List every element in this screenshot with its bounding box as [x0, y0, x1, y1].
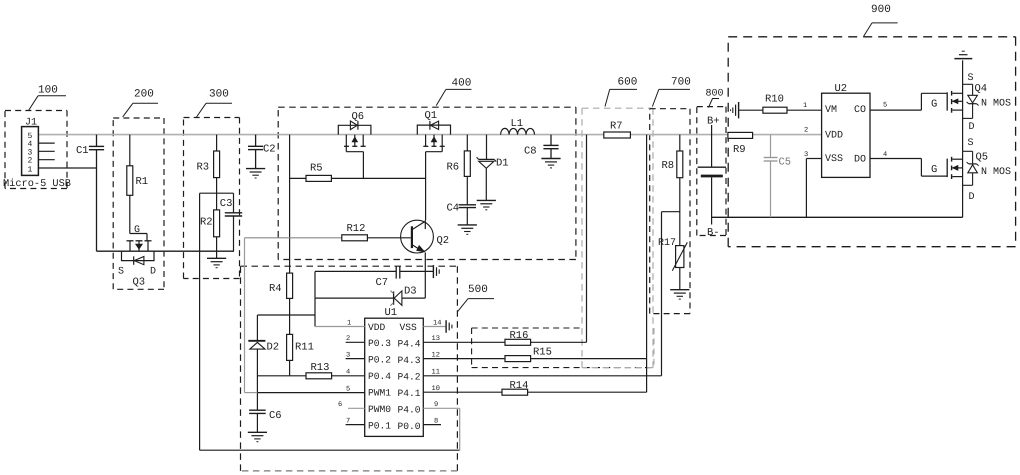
- svg-text:R9: R9: [733, 144, 746, 156]
- svg-text:PWM0: PWM0: [368, 404, 391, 415]
- svg-text:300: 300: [209, 89, 229, 101]
- resistor R6: [447, 135, 471, 205]
- svg-text:VM: VM: [825, 105, 837, 116]
- svg-text:2: 2: [346, 335, 350, 343]
- svg-text:C8: C8: [524, 146, 537, 158]
- svg-text:P4.2: P4.2: [398, 372, 421, 383]
- wire feedback sense bottom: [200, 449, 460, 451]
- transistor Q6 channel: [344, 135, 366, 147]
- svg-text:2: 2: [28, 157, 33, 166]
- resistor R1: [127, 135, 148, 234]
- svg-text:1: 1: [803, 102, 807, 110]
- capacitor C4: [447, 203, 477, 225]
- svg-text:9: 9: [434, 401, 438, 409]
- resistor R2: [200, 193, 220, 258]
- wire divider tap: [200, 192, 234, 194]
- wire B- bus: [712, 216, 963, 218]
- resistor R12: [245, 223, 411, 241]
- svg-text:R8: R8: [662, 160, 675, 172]
- svg-text:P4.4: P4.4: [398, 339, 421, 350]
- capacitor C5: [764, 135, 791, 218]
- svg-text:VSS: VSS: [400, 322, 418, 333]
- wire CO to Q4 gate: [870, 93, 947, 110]
- svg-text:C2: C2: [263, 144, 276, 156]
- resistor R15 on pin12: [423, 347, 646, 362]
- svg-text:3: 3: [346, 351, 350, 359]
- svg-text:R6: R6: [447, 162, 460, 174]
- IC U2: [822, 83, 870, 177]
- resistor R14 on pin10: [423, 380, 646, 395]
- module box 100 (USB input): [5, 111, 67, 189]
- svg-text:DO: DO: [854, 155, 866, 166]
- transistor Q1 gate lead: [426, 146, 443, 220]
- svg-text:4: 4: [883, 151, 887, 159]
- resistor R10: [763, 94, 822, 114]
- svg-text:C3: C3: [220, 198, 233, 210]
- svg-text:S: S: [118, 267, 124, 278]
- wire U1 pin5 PWM1: [257, 385, 364, 393]
- transistor Q1 channel: [423, 135, 444, 147]
- wire U1 pin14 VSS: [423, 320, 446, 328]
- ground under R2: [207, 258, 226, 267]
- capacitor C8: [524, 135, 561, 168]
- transistor Q3 gate: [130, 225, 147, 241]
- svg-text:U1: U1: [385, 307, 398, 319]
- capacitor C1: [76, 135, 104, 252]
- wire J1 pin1 to ground net: [38, 167, 96, 169]
- U1 pin8 stub: [423, 417, 441, 425]
- connector J1: [22, 118, 39, 176]
- wire J1 pin2: [38, 159, 54, 161]
- svg-text:Q5: Q5: [976, 152, 989, 164]
- svg-text:G: G: [134, 225, 140, 236]
- svg-text:400: 400: [452, 78, 472, 90]
- label 800: [706, 89, 724, 108]
- svg-text:P4.1: P4.1: [398, 388, 421, 399]
- svg-text:R13: R13: [311, 362, 330, 374]
- module box 600 (current sample): [582, 108, 653, 367]
- svg-text:4: 4: [346, 369, 350, 377]
- terminal B-: [707, 177, 720, 239]
- svg-text:5: 5: [883, 102, 887, 110]
- svg-text:R5: R5: [310, 163, 323, 175]
- svg-text:3: 3: [804, 151, 808, 159]
- svg-text:Q3: Q3: [133, 277, 146, 289]
- thermistor R17: [658, 238, 687, 290]
- svg-text:R15: R15: [533, 347, 552, 359]
- wire U2 VSS to B-: [806, 159, 821, 218]
- svg-text:VDD: VDD: [368, 322, 386, 333]
- wire temp divider tap: [662, 212, 680, 376]
- wire R16 riser: [586, 135, 588, 343]
- sideways ground pin14: [446, 320, 452, 333]
- wire PWM1 gray elbow: [245, 238, 258, 393]
- svg-text:Micro-5 USB: Micro-5 USB: [3, 178, 71, 190]
- terminal B+: [707, 116, 720, 167]
- wire main 5V rail: [38, 134, 821, 136]
- wire U1 pin9 battery sense: [423, 401, 459, 450]
- svg-text:1: 1: [347, 320, 351, 328]
- label 500: [457, 284, 494, 312]
- svg-text:C6: C6: [269, 410, 282, 422]
- label 600: [605, 77, 637, 107]
- U1 pin6 stub: [338, 401, 365, 409]
- label 900: [864, 4, 898, 37]
- svg-text:R3: R3: [197, 162, 210, 174]
- svg-text:N MOS: N MOS: [981, 167, 1011, 178]
- wire VDD drop: [289, 135, 291, 274]
- transistor Q4 gate bar: [946, 92, 948, 110]
- wire Q2 emitter down: [424, 253, 426, 299]
- Q5 body diode: [963, 151, 979, 185]
- resistor R16 on pin13: [423, 330, 586, 345]
- svg-text:PWM1: PWM1: [368, 388, 391, 399]
- module box 500 (MCU): [241, 266, 458, 471]
- resistor R5: [290, 163, 426, 182]
- wire R15 R14 riser: [646, 135, 648, 393]
- svg-text:C4: C4: [447, 203, 460, 215]
- svg-text:P4.0: P4.0: [398, 405, 421, 416]
- svg-text:200: 200: [134, 89, 154, 101]
- wire DO to Q5 gate: [870, 159, 947, 177]
- svg-text:D3: D3: [404, 286, 417, 298]
- module box 900 (protection): [728, 37, 1015, 247]
- svg-text:500: 500: [468, 284, 488, 296]
- svg-text:R14: R14: [510, 380, 529, 392]
- wire input ground net: [97, 250, 235, 252]
- svg-text:P4.3: P4.3: [398, 355, 421, 366]
- svg-text:11: 11: [432, 369, 440, 377]
- svg-text:7: 7: [346, 417, 350, 425]
- label Micro-5 USB: [3, 178, 71, 190]
- svg-text:S: S: [968, 73, 974, 84]
- label 300: [197, 89, 233, 118]
- svg-text:P0.3: P0.3: [368, 338, 391, 349]
- svg-text:R17: R17: [658, 238, 676, 249]
- svg-text:D: D: [969, 192, 975, 203]
- transistor Q4: [952, 60, 1011, 151]
- U1 pin3 stub: [346, 351, 365, 359]
- svg-text:C1: C1: [76, 145, 89, 157]
- svg-text:Q4: Q4: [975, 83, 988, 95]
- svg-text:8: 8: [434, 417, 438, 425]
- svg-text:R11: R11: [295, 342, 314, 354]
- svg-text:Q1: Q1: [425, 110, 438, 122]
- sideways ground C7: [433, 265, 439, 278]
- svg-text:R12: R12: [347, 223, 366, 235]
- module box 800 (battery): [697, 107, 726, 236]
- module box 400 (buck converter): [278, 107, 576, 259]
- transistor Q3 body diode: [122, 251, 155, 265]
- transistor Q6 body diode: [338, 111, 371, 135]
- label 400: [436, 78, 471, 106]
- svg-text:P0.2: P0.2: [368, 355, 391, 366]
- svg-text:800: 800: [706, 89, 724, 100]
- svg-text:1: 1: [28, 165, 33, 174]
- svg-text:P0.1: P0.1: [368, 420, 391, 431]
- svg-text:6: 6: [338, 401, 342, 409]
- wire U1 pin1 VDD: [315, 320, 365, 328]
- inductor L1: [501, 118, 535, 135]
- svg-text:Q2: Q2: [437, 235, 450, 247]
- Q4 body diode: [963, 84, 979, 118]
- svg-text:G: G: [931, 164, 937, 176]
- svg-text:B-: B-: [707, 227, 720, 239]
- svg-text:P0.0: P0.0: [398, 421, 421, 432]
- resistor R4: [269, 273, 293, 334]
- svg-text:600: 600: [618, 77, 638, 89]
- svg-text:D2: D2: [267, 342, 280, 354]
- svg-text:R2: R2: [200, 217, 213, 229]
- svg-text:VSS: VSS: [825, 154, 843, 165]
- transistor Q2: [401, 220, 450, 253]
- svg-text:700: 700: [671, 77, 691, 89]
- ground under C6: [248, 432, 267, 441]
- svg-text:D: D: [150, 267, 156, 278]
- svg-text:5: 5: [346, 385, 350, 393]
- wire U1 pin11 temp sense: [423, 369, 661, 377]
- resistor R3: [197, 135, 220, 194]
- svg-text:13: 13: [432, 335, 440, 343]
- svg-text:CO: CO: [854, 105, 866, 116]
- battery cell: [698, 167, 726, 176]
- module box 700 (temperature sample): [650, 109, 690, 314]
- transistor Q3 channel: [127, 241, 152, 251]
- svg-text:14: 14: [433, 320, 441, 328]
- svg-text:R10: R10: [765, 94, 784, 106]
- U1 pin7 stub: [346, 417, 365, 425]
- charger port ground: [731, 102, 763, 118]
- ground under R17: [670, 290, 689, 299]
- transistor Q1 body diode: [417, 110, 450, 135]
- resistor R8: [662, 135, 683, 246]
- diode D1 zener: [477, 135, 509, 201]
- wire J1 pin4: [38, 142, 54, 144]
- label 700: [652, 77, 690, 107]
- svg-text:P0.4: P0.4: [368, 371, 391, 382]
- svg-text:900: 900: [871, 4, 891, 16]
- label 100: [29, 85, 67, 111]
- capacitor C2: [246, 135, 276, 178]
- wire Q2 collector to Q1 gate: [424, 220, 426, 229]
- diode D2 zener: [248, 315, 279, 410]
- svg-text:R16: R16: [510, 330, 529, 342]
- IC U1: [365, 307, 424, 436]
- capacitor C6: [249, 410, 282, 432]
- transistor Q6 gate lead: [346, 146, 363, 178]
- svg-text:D1: D1: [496, 158, 509, 170]
- svg-text:G: G: [931, 99, 937, 111]
- U2 pin numbers: [803, 102, 887, 160]
- capacitor C3: [220, 193, 242, 251]
- resistor R11: [287, 334, 314, 375]
- capacitor C7: [315, 266, 433, 289]
- module box 300 (voltage divider): [184, 118, 240, 279]
- svg-text:VDD: VDD: [825, 131, 843, 142]
- svg-text:R7: R7: [610, 121, 623, 133]
- svg-text:D: D: [969, 122, 975, 133]
- label Q3 pins: [118, 267, 156, 289]
- resistor R9: [728, 132, 753, 156]
- svg-text:Q6: Q6: [352, 111, 365, 123]
- transistor Q5: [952, 138, 1011, 217]
- svg-text:C5: C5: [779, 157, 792, 169]
- svg-text:B+: B+: [707, 116, 720, 128]
- U1 pin2 stub: [346, 335, 365, 343]
- svg-text:10: 10: [432, 385, 440, 393]
- resistor R7: [604, 121, 631, 139]
- output wires box: [472, 328, 654, 368]
- label 200: [123, 89, 158, 117]
- svg-text:S: S: [968, 138, 974, 149]
- wire D2 branch: [257, 314, 315, 316]
- svg-text:R1: R1: [136, 176, 149, 188]
- resistor R13 on pin4: [257, 362, 364, 379]
- transistor Q5 gate bar: [946, 159, 948, 178]
- pack positive symbol: [954, 51, 972, 58]
- diode D3: [315, 286, 425, 306]
- ground under D1: [477, 200, 496, 209]
- svg-text:R4: R4: [269, 283, 282, 295]
- module box 200 (input switch): [113, 118, 164, 289]
- ground under C4: [458, 225, 477, 234]
- wire VDD vertical: [314, 271, 316, 326]
- svg-text:100: 100: [38, 85, 58, 97]
- wire feedback sense down: [199, 193, 201, 450]
- svg-text:C7: C7: [376, 277, 389, 289]
- svg-text:2: 2: [804, 127, 808, 135]
- svg-text:N MOS: N MOS: [981, 99, 1011, 110]
- wire J1 pin3: [38, 150, 54, 152]
- svg-text:12: 12: [432, 351, 440, 359]
